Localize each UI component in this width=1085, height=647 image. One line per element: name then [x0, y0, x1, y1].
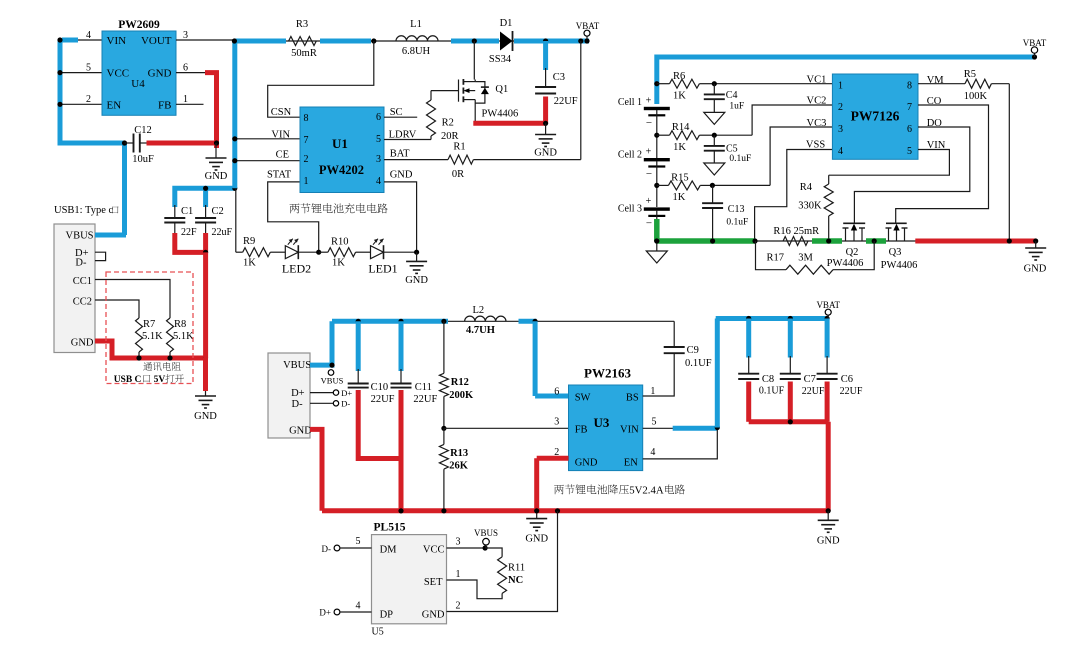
- svg-text:U1: U1: [332, 136, 348, 151]
- chip U4 PW2609: [102, 19, 176, 115]
- wire BS path: [643, 353, 675, 396]
- svg-text:4: 4: [376, 176, 381, 187]
- svg-text:U5: U5: [372, 627, 384, 638]
- svg-text:USB1: Type c: USB1: Type c: [54, 205, 113, 216]
- wire blue VOUT riser: [232, 41, 237, 188]
- wire R9 left riser: [236, 188, 243, 252]
- svg-text:GND: GND: [71, 338, 94, 349]
- svg-text:0R: 0R: [452, 169, 464, 180]
- chip U3 PW2163: [569, 366, 643, 471]
- svg-text:C10: C10: [371, 382, 389, 393]
- svg-text:6: 6: [183, 63, 188, 74]
- LED1: [368, 239, 397, 276]
- wire C1 red elbow: [175, 233, 206, 252]
- svg-text:R3: R3: [296, 19, 308, 30]
- resistor R10 1K: [319, 237, 356, 269]
- resistor R13 26K: [439, 428, 468, 511]
- terminal VBUS2: [321, 363, 344, 386]
- svg-text:VBUS: VBUS: [474, 528, 498, 538]
- svg-text:4: 4: [838, 146, 843, 157]
- wire U4 GND red elbow: [205, 73, 217, 143]
- capacitor C12: [125, 125, 154, 165]
- svg-text:R15: R15: [671, 173, 689, 184]
- svg-text:C8: C8: [762, 374, 774, 385]
- box dashed CC resistors: [106, 272, 193, 384]
- chip U1 PW4202: [300, 107, 384, 193]
- wire LDRV stub: [384, 139, 431, 141]
- capacitor C8 0.1UF: [738, 319, 784, 397]
- battery Cell 2: [618, 147, 670, 181]
- wire cell3 green drop: [654, 219, 660, 241]
- svg-text:20R: 20R: [441, 131, 459, 142]
- svg-text:5: 5: [652, 417, 657, 428]
- svg-text:PW4406: PW4406: [827, 258, 864, 269]
- svg-text:C5: C5: [726, 144, 738, 155]
- wire Q1 drain riser: [473, 41, 475, 80]
- wire bottom red rail: [322, 508, 828, 513]
- inductor L2 4.7UH: [465, 305, 506, 336]
- svg-text:EN: EN: [107, 100, 122, 112]
- capacitor C1 22F: [164, 205, 197, 238]
- svg-text:5.1K: 5.1K: [142, 331, 163, 342]
- svg-text:4: 4: [356, 601, 361, 612]
- svg-text:C2: C2: [212, 206, 224, 217]
- svg-text:22UF: 22UF: [554, 96, 578, 107]
- svg-text:R14: R14: [672, 122, 690, 133]
- wire SW blue: [535, 321, 568, 396]
- node green rail junctions: [654, 238, 715, 243]
- svg-text:0.1uF: 0.1uF: [729, 154, 751, 164]
- svg-text:PW2163: PW2163: [584, 366, 631, 381]
- svg-text:C4: C4: [726, 90, 738, 101]
- svg-text:C11: C11: [415, 382, 432, 393]
- ground GND below C12: [205, 143, 228, 182]
- svg-text:C1: C1: [181, 206, 193, 217]
- svg-text:Cell 3: Cell 3: [618, 204, 642, 215]
- svg-text:GND: GND: [534, 148, 557, 159]
- wire SC stub: [384, 116, 417, 118]
- svg-text:VC1: VC1: [807, 75, 827, 86]
- ground triangle below C5: [704, 163, 725, 175]
- svg-text:GND: GND: [1024, 264, 1047, 275]
- wire STAT path: [268, 182, 319, 252]
- label charger chinese: [290, 203, 388, 213]
- svg-text:3: 3: [183, 30, 188, 41]
- wire USB1 CC1 to R8: [95, 280, 170, 319]
- transistor Q2 PW4406: [827, 223, 866, 269]
- svg-text:R10: R10: [331, 237, 349, 248]
- chip PL515 body: [372, 522, 447, 638]
- wire FB wire: [444, 427, 569, 429]
- wire DO path: [854, 127, 969, 223]
- svg-text:PL515: PL515: [374, 522, 406, 534]
- svg-text:C13: C13: [728, 204, 745, 215]
- svg-text:1: 1: [183, 94, 188, 105]
- svg-text:0.1uF: 0.1uF: [726, 218, 748, 228]
- svg-text:Q3: Q3: [889, 247, 902, 258]
- node rail junctions: [752, 238, 1038, 243]
- svg-text:DM: DM: [380, 545, 398, 556]
- capacitor C4 1uF: [704, 84, 744, 113]
- svg-text:+: +: [646, 196, 652, 207]
- svg-text:1K: 1K: [243, 258, 256, 269]
- wire GND pin path: [384, 182, 417, 252]
- wire left lower rail blue: [332, 319, 537, 324]
- svg-text:PW7126: PW7126: [851, 109, 900, 124]
- ground GND below USB area: [194, 396, 217, 422]
- wire R10 to LED1: [356, 251, 371, 253]
- svg-text:2: 2: [838, 102, 843, 113]
- resistor R14 1K: [657, 122, 715, 153]
- capacitor C9 0.1UF: [664, 321, 712, 369]
- svg-text:VBAT: VBAT: [576, 21, 600, 31]
- svg-text:R7: R7: [143, 319, 155, 330]
- svg-text:1: 1: [304, 176, 309, 187]
- wire VC3 path: [710, 127, 833, 188]
- svg-text:GND: GND: [405, 275, 428, 286]
- node rail junctions: [232, 38, 584, 43]
- node lower rail junctions: [356, 319, 538, 324]
- wire VIN riser blue: [715, 319, 720, 428]
- wire VBUS riser to USB1: [122, 143, 127, 235]
- wire VIN path: [829, 150, 950, 176]
- resistor R12 200K: [439, 321, 474, 428]
- svg-text:22uF: 22uF: [212, 227, 233, 238]
- wire U4 GND stub: [176, 72, 206, 74]
- svg-text:2: 2: [304, 154, 309, 165]
- svg-text:PW4406: PW4406: [881, 260, 918, 271]
- capacitor C6 22UF: [817, 319, 863, 398]
- pin numbers U1 left 8 7 2 1: [304, 113, 309, 187]
- wire CSN path: [268, 41, 374, 117]
- svg-text:22UF: 22UF: [413, 394, 437, 405]
- svg-text:200K: 200K: [449, 390, 474, 401]
- resistor R6 1K: [657, 71, 715, 102]
- svg-text:3: 3: [376, 154, 381, 165]
- svg-text:Q1: Q1: [495, 84, 508, 95]
- wire VC2 path: [712, 105, 833, 138]
- node bottom rail junctions: [398, 508, 830, 513]
- svg-text:PW4202: PW4202: [319, 163, 364, 177]
- terminal VBAT right top: [1023, 38, 1047, 60]
- wire R9 to LED2: [270, 251, 285, 253]
- resistor R4 330K: [798, 175, 833, 241]
- connector USB1 body: [54, 224, 95, 353]
- resistor R9 1K: [243, 236, 271, 269]
- resistor R2 20R: [427, 91, 459, 142]
- svg-text:6: 6: [376, 112, 381, 123]
- wire GND U3 red: [534, 458, 568, 513]
- pin numbers U4 left 4 5 2: [86, 30, 91, 105]
- svg-text:6: 6: [907, 124, 912, 135]
- svg-text:CC2: CC2: [73, 297, 92, 308]
- node R7 R8 gnd junctions: [136, 355, 208, 360]
- wire blue C2 drop: [203, 188, 208, 207]
- svg-text:LED2: LED2: [282, 262, 311, 276]
- wire C10 red path: [358, 390, 401, 459]
- svg-text:6.8UH: 6.8UH: [402, 46, 431, 57]
- label 通讯电阻: [143, 362, 180, 371]
- node battery junctions: [654, 81, 659, 244]
- svg-text:Cell 2: Cell 2: [618, 150, 642, 161]
- svg-text:U4: U4: [131, 78, 145, 90]
- svg-text:R5: R5: [964, 69, 976, 80]
- svg-text:C7: C7: [804, 374, 816, 385]
- svg-text:D+: D+: [319, 608, 331, 618]
- ground GND below LED1: [405, 252, 428, 286]
- svg-text:100K: 100K: [964, 91, 988, 102]
- svg-text:VCC: VCC: [423, 545, 445, 556]
- pin labels U1 left: [267, 107, 292, 181]
- svg-text:5: 5: [356, 536, 361, 547]
- svg-text:R4: R4: [800, 182, 813, 193]
- svg-text:R6: R6: [673, 71, 685, 82]
- wire BAT riser: [580, 41, 582, 160]
- svg-text:VBUS: VBUS: [283, 360, 311, 371]
- svg-text:D+: D+: [341, 388, 352, 398]
- svg-text:DP: DP: [380, 610, 394, 621]
- label USB C口5V打开: [114, 374, 184, 385]
- wire VM riser: [1008, 84, 1010, 241]
- svg-text:R12: R12: [451, 377, 469, 388]
- resistor R16 25mR: [773, 226, 819, 246]
- wire left lower rail thin: [332, 320, 674, 322]
- wire VIN pin blue: [643, 425, 720, 430]
- wire EN path: [643, 430, 718, 459]
- svg-text:D-: D-: [322, 544, 332, 554]
- svg-text:L2: L2: [473, 305, 485, 316]
- battery Cell 1: [618, 96, 670, 130]
- ground GND bottom right: [817, 511, 840, 547]
- capacitor C7 22UF: [780, 319, 825, 398]
- svg-text:EN: EN: [624, 457, 638, 468]
- resistor R15 1K: [657, 173, 713, 204]
- svg-text:GND: GND: [525, 534, 548, 545]
- svg-text:1uF: 1uF: [729, 102, 744, 112]
- pin labels PW7126 right: [927, 75, 946, 151]
- svg-text:330K: 330K: [798, 201, 822, 212]
- wire USB1 VBUS blue: [95, 233, 126, 238]
- svg-text:2: 2: [86, 94, 91, 105]
- wire D+ terminal: [310, 388, 352, 398]
- svg-text:R16 25mR: R16 25mR: [773, 226, 819, 237]
- svg-text:FB: FB: [158, 100, 171, 112]
- svg-text:1K: 1K: [673, 192, 686, 203]
- wire BAT stub: [384, 159, 448, 161]
- svg-text:VBUS: VBUS: [65, 231, 93, 242]
- svg-text:FB: FB: [575, 425, 588, 436]
- wire C3 red to Q1 source: [473, 97, 548, 126]
- svg-text:8: 8: [304, 113, 309, 124]
- resistor R7 5.1K: [136, 318, 164, 358]
- ground GND below C3: [534, 123, 557, 158]
- terminal D+ left: [319, 601, 371, 618]
- svg-text:R1: R1: [453, 142, 465, 153]
- label USB1 Type c: [54, 205, 119, 216]
- svg-text:D-: D-: [341, 399, 350, 409]
- wire red main vertical: [203, 252, 208, 358]
- svg-text:GND: GND: [422, 610, 445, 621]
- wire green rail segs: [657, 238, 886, 244]
- svg-text:GND: GND: [194, 411, 217, 422]
- wire VSS path: [755, 150, 833, 242]
- svg-text:5: 5: [376, 134, 381, 145]
- svg-text:VBAT: VBAT: [816, 300, 840, 310]
- svg-text:VM: VM: [927, 75, 945, 86]
- wire C3 blue drop: [543, 41, 548, 70]
- svg-text:VBAT: VBAT: [1023, 38, 1047, 48]
- svg-text:D1: D1: [500, 18, 513, 29]
- svg-text:CC1: CC1: [73, 276, 92, 287]
- svg-text:−: −: [646, 218, 652, 230]
- chip PW7126: [832, 74, 918, 159]
- wire blue C1 C2 top rail: [175, 188, 236, 207]
- svg-text:5: 5: [86, 63, 91, 74]
- wire C12 to GND red: [147, 140, 220, 148]
- svg-text:4: 4: [650, 447, 655, 458]
- resistor R5 100K: [918, 69, 1009, 102]
- battery Cell 3: [618, 196, 670, 230]
- wire USB1 GND red to rail: [95, 341, 206, 358]
- svg-text:3: 3: [554, 417, 559, 428]
- svg-text:R17: R17: [767, 253, 785, 264]
- pin numbers PW7126 right: [907, 81, 912, 158]
- svg-text:STAT: STAT: [267, 170, 292, 181]
- wire CE stub: [232, 158, 300, 163]
- svg-text:VIN: VIN: [107, 35, 127, 47]
- wire C2 red drop: [203, 233, 208, 255]
- wire top rail blue segs: [234, 39, 589, 44]
- svg-text:1K: 1K: [673, 142, 686, 153]
- capacitor C11 22UF: [391, 321, 438, 405]
- pin labels U1 right: [389, 107, 417, 181]
- node VIN bus junctions: [57, 37, 127, 145]
- svg-text:C6: C6: [841, 374, 853, 385]
- svg-text:6: 6: [554, 387, 559, 398]
- svg-text:5V2.4A: 5V2.4A: [629, 485, 664, 497]
- wire U4 pin stubs VIN VCC EN: [60, 40, 102, 104]
- wire C6 red drop to rail: [827, 382, 828, 511]
- svg-text:CSN: CSN: [271, 107, 292, 118]
- transistor Q1 PW4406: [459, 79, 519, 123]
- wire protection rail thin: [657, 240, 1036, 242]
- svg-text:SC: SC: [390, 107, 403, 118]
- svg-text:7: 7: [907, 102, 912, 113]
- wire GND2 red: [310, 429, 322, 510]
- pin numbers U4 right 3 6 1: [183, 30, 188, 105]
- svg-text:D+: D+: [291, 388, 305, 399]
- svg-text:D-: D-: [75, 258, 87, 269]
- svg-text:4.7UH: 4.7UH: [466, 325, 495, 336]
- inductor L1 6.8UH: [396, 19, 438, 57]
- capacitor C10 22UF: [348, 321, 395, 405]
- resistor R1 0R: [448, 142, 473, 181]
- terminal VBAT left: [576, 21, 600, 44]
- transistor Q3 PW4406: [881, 223, 918, 271]
- svg-text:LED1: LED1: [368, 262, 397, 276]
- svg-text:R8: R8: [174, 319, 186, 330]
- svg-text:GND: GND: [289, 426, 312, 437]
- svg-text:GND: GND: [817, 536, 840, 547]
- resistor R8 5.1K: [167, 318, 195, 358]
- svg-text:R11: R11: [508, 563, 525, 574]
- svg-text:C12: C12: [134, 125, 152, 136]
- svg-text:R13: R13: [450, 448, 468, 459]
- svg-text:−: −: [646, 117, 652, 129]
- svg-text:5V: 5V: [154, 375, 166, 385]
- svg-text:3: 3: [838, 124, 843, 135]
- svg-text:−: −: [646, 168, 652, 180]
- svg-text:L1: L1: [410, 19, 422, 30]
- svg-text:+: +: [646, 96, 652, 107]
- svg-text:Q2: Q2: [846, 247, 859, 258]
- svg-text:SET: SET: [424, 577, 443, 588]
- svg-text:R2: R2: [442, 118, 454, 129]
- connector VBUS2 body: [268, 353, 312, 438]
- ground triangle below battery: [646, 241, 667, 263]
- svg-text:VOUT: VOUT: [141, 35, 172, 47]
- node FB junction: [441, 426, 446, 431]
- resistor R17 3M path: [756, 241, 875, 274]
- svg-text:GND: GND: [148, 68, 172, 80]
- wire C11 red drop: [398, 390, 403, 513]
- wire BAT to VBAT riser: [473, 159, 580, 161]
- wire Q1 gate lead: [431, 90, 459, 92]
- svg-text:C3: C3: [553, 72, 565, 83]
- svg-text:4: 4: [86, 30, 91, 41]
- svg-text:VBUS: VBUS: [321, 376, 344, 386]
- svg-text:PW2609: PW2609: [118, 19, 160, 31]
- wire right vbat rail blue: [716, 316, 829, 321]
- svg-text:VCC: VCC: [107, 68, 130, 80]
- svg-text:VC2: VC2: [807, 96, 827, 107]
- wire U4 FB stub: [176, 103, 204, 105]
- svg-text:22F: 22F: [181, 227, 197, 238]
- wire battery column: [656, 110, 658, 224]
- ground GND right rail end: [1024, 241, 1047, 275]
- svg-text:0.1UF: 0.1UF: [685, 358, 712, 369]
- wire red rail seg: [915, 239, 1035, 244]
- svg-text:D-: D-: [292, 399, 304, 410]
- capacitor C5 0.1uF: [704, 135, 752, 164]
- wire top rail thin: [234, 40, 588, 42]
- LED2: [282, 239, 311, 276]
- wire VCC stub: [447, 537, 488, 551]
- wire VC1: [712, 81, 833, 86]
- svg-text:GND: GND: [575, 457, 598, 468]
- svg-text:1: 1: [838, 81, 843, 92]
- wire left blue bus (VIN/VCC/EN to VBUS net): [60, 40, 125, 143]
- wire LED1 to gnd node: [384, 250, 420, 255]
- svg-text:+: +: [646, 147, 652, 158]
- wire VBUS2 blue: [310, 321, 332, 365]
- svg-text:SW: SW: [575, 393, 591, 404]
- svg-text:CE: CE: [276, 150, 289, 161]
- svg-text:5: 5: [907, 146, 912, 157]
- svg-text:LDRV: LDRV: [389, 129, 417, 140]
- svg-text:R9: R9: [243, 236, 255, 247]
- wire right top rail blue: [657, 57, 1035, 104]
- wire CO path: [896, 105, 989, 223]
- svg-text:VIN: VIN: [620, 425, 639, 436]
- pin numbers U3: [554, 386, 656, 458]
- pin numbers PW7126 left: [838, 81, 843, 158]
- terminal VBUS pl515: [474, 528, 498, 548]
- svg-text:3: 3: [456, 537, 461, 548]
- svg-text:7: 7: [304, 135, 309, 146]
- pin numbers U1 right 6 5 3 4: [376, 112, 381, 187]
- wire USB1 CC2 to R7: [95, 300, 139, 318]
